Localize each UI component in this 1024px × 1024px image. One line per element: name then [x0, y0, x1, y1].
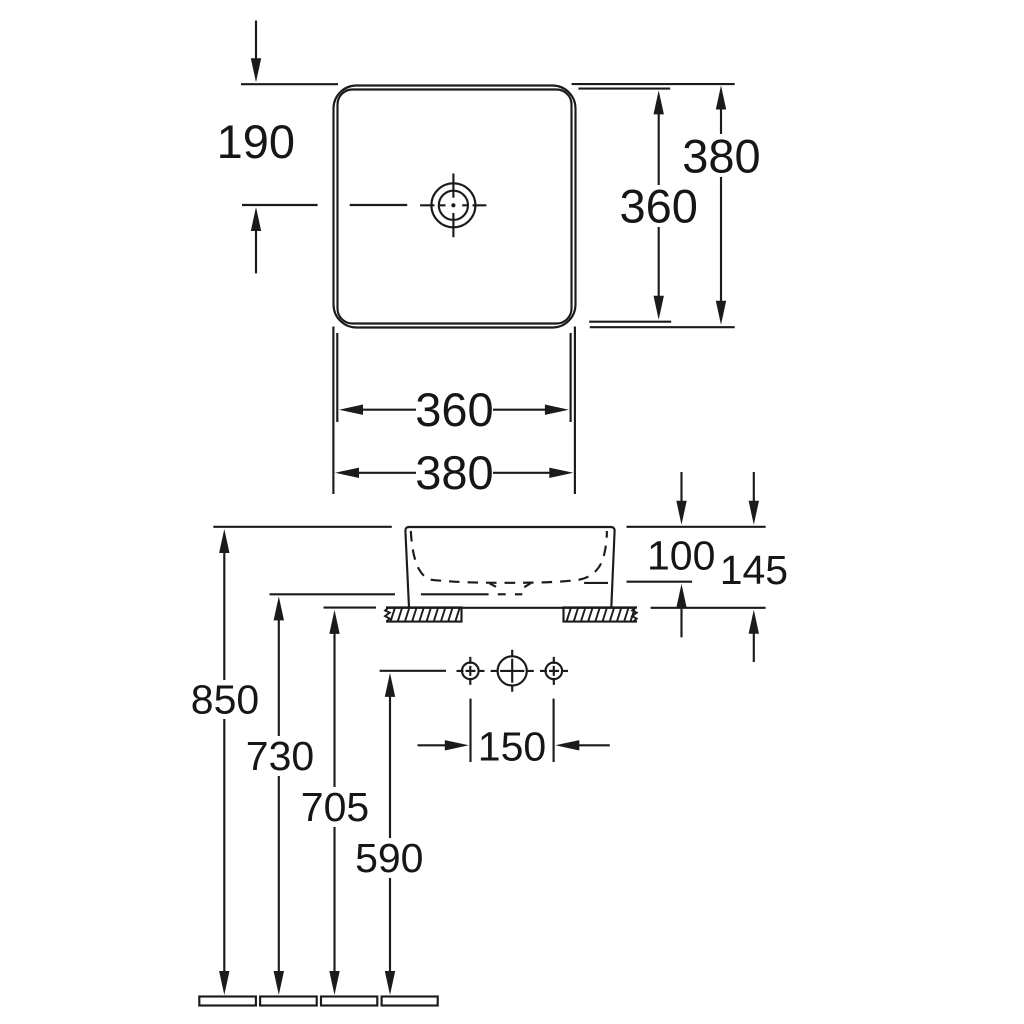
centerline segment left of drain	[350, 204, 408, 206]
dim 100: lower arrowhead (up)	[676, 584, 686, 608]
drain crosshair vertical centerline	[452, 174, 454, 238]
dim 190: top tick line	[241, 83, 338, 85]
dim 190: lower arrowhead (up)	[251, 207, 261, 231]
bowl drain recess right slant dash	[524, 583, 531, 587]
faucet hole right crosshair vertical	[553, 657, 555, 685]
faucet hole right circle	[546, 663, 563, 680]
dim 730: lower arrowhead (down)	[274, 971, 284, 995]
break squiggle at left end of counter	[385, 608, 390, 622]
faucet hole left circle	[462, 663, 479, 680]
dim 360 right: upper arrowhead (up)	[654, 90, 664, 114]
dim 360 right: top tick	[578, 88, 670, 90]
counter hatched block right	[564, 608, 638, 622]
dim 730: upper arrowhead (up)	[274, 596, 284, 620]
dim 360 right: upper shaft	[658, 113, 660, 185]
dim 380 bottom: right extension line	[574, 327, 576, 495]
100-depth level tick	[627, 581, 693, 583]
dim 360 right: lower shaft	[658, 227, 660, 297]
dim 100: upper arrowhead (down)	[676, 501, 686, 525]
drain inner circle	[439, 191, 468, 220]
interior bowl hidden line (dashed)	[411, 531, 607, 583]
basin outer outline (top view)	[334, 86, 576, 328]
dim 360 bottom: right arrowhead (right)	[545, 405, 569, 415]
interior bottom dash 2	[515, 593, 522, 595]
svg-text:150: 150	[478, 724, 546, 770]
dim 850: upper arrowhead (up)	[219, 529, 229, 553]
break squiggle at right end of counter	[631, 608, 637, 622]
svg-text:380: 380	[682, 130, 760, 183]
interior bottom solid line	[421, 593, 489, 595]
faucet hole left crosshair vertical	[469, 657, 471, 685]
drain outer circle	[431, 183, 475, 227]
drain center dot	[451, 203, 455, 207]
dim 190: lower arrow shaft	[255, 231, 257, 273]
svg-text:360: 360	[415, 383, 493, 436]
basin inner outline (top view)	[338, 90, 572, 324]
dim 590: lower shaft	[389, 878, 391, 972]
dim 190: upper arrowhead (down)	[251, 58, 261, 82]
dim 730: level tick	[270, 593, 396, 595]
faucet hole center crosshair vertical	[511, 650, 513, 692]
right rim level tick	[627, 526, 766, 528]
dim 705: upper shaft	[333, 633, 335, 787]
svg-text:730: 730	[246, 733, 314, 779]
dim 705: upper arrowhead (up)	[329, 610, 339, 634]
dim 705: lower arrowhead (down)	[329, 971, 339, 995]
dim 705: level tick (counter)	[324, 607, 377, 609]
dim 190: upper arrow shaft	[255, 21, 257, 61]
faucet hole center circle	[498, 656, 527, 685]
dim 150: left extension line	[469, 699, 471, 762]
svg-text:850: 850	[191, 677, 259, 723]
dim 380 bottom: left arrowhead (left)	[335, 468, 359, 478]
dim 145: lower arrowhead (up)	[749, 610, 759, 634]
dim 730: lower shaft	[278, 776, 280, 972]
dim 380 bottom: right arrowhead (right)	[549, 468, 573, 478]
dim 380 right: top tick	[572, 83, 735, 85]
counter top line	[388, 607, 633, 609]
dim 100: lower shaft	[680, 607, 682, 637]
counter hatched block left	[385, 608, 461, 622]
dim 150: left arrowhead (right)	[445, 740, 469, 750]
dim 850: lower shaft	[223, 719, 225, 972]
floor slab 2	[260, 997, 317, 1006]
basin side profile (rim and walls)	[405, 527, 614, 608]
svg-text:360: 360	[619, 180, 697, 233]
dim 380 right: upper shaft	[720, 109, 722, 135]
dim 360 bottom: left shaft	[362, 409, 416, 411]
interior shelf edge right (solid)	[584, 582, 608, 584]
svg-text:380: 380	[415, 446, 493, 499]
dim 380 bottom: right shaft	[493, 472, 551, 474]
dim 150: right shaft	[578, 744, 610, 746]
svg-text:100: 100	[647, 533, 715, 579]
dim 360 right: bottom tick	[589, 321, 671, 323]
dim 150: right extension line	[553, 699, 555, 762]
dim 380 bottom: left extension line	[332, 327, 334, 495]
floor slab 4	[382, 997, 438, 1006]
dim 590: upper shaft	[389, 696, 391, 838]
dim 590: upper arrowhead (up)	[385, 673, 395, 697]
faucet hole left crosshair horizontal	[457, 670, 485, 672]
svg-text:705: 705	[301, 784, 369, 830]
dim 705: lower shaft	[333, 827, 335, 972]
floor slab 3	[321, 997, 377, 1006]
right counter level tick	[651, 607, 766, 609]
dim 850: upper shaft	[223, 552, 225, 680]
dim 850: level tick (rim)	[213, 526, 391, 528]
dim 100: upper arrow shaft (from above)	[680, 472, 682, 502]
dim 150: left shaft	[418, 744, 447, 746]
svg-text:145: 145	[720, 547, 788, 593]
dim 360 bottom: right shaft	[493, 409, 546, 411]
dim 590: lower arrowhead (down)	[385, 971, 395, 995]
floor slab 1	[199, 997, 256, 1006]
faucet hole right crosshair horizontal	[540, 670, 568, 672]
dim 380 right: lower shaft	[720, 177, 722, 303]
dim 360 right: lower arrowhead (down)	[654, 296, 664, 320]
dim 850: lower arrowhead (down)	[219, 971, 229, 995]
dim 380 bottom: left shaft	[358, 472, 416, 474]
faucet hole center crosshair horizontal	[491, 670, 534, 672]
dim 360 bottom: left extension line	[336, 333, 338, 422]
bowl drain recess left slant dash	[490, 583, 497, 587]
dim 380 right: upper arrowhead (up)	[716, 86, 726, 110]
svg-text:590: 590	[355, 835, 423, 881]
dim 145: upper arrowhead (down)	[749, 501, 759, 525]
drain crosshair horizontal centerline	[420, 204, 486, 206]
svg-text:190: 190	[217, 115, 295, 168]
dim 150: right arrowhead (left)	[555, 740, 579, 750]
dim 380 right: bottom tick	[590, 326, 735, 328]
dim 360 bottom: left arrowhead (left)	[339, 405, 363, 415]
dim 360 bottom: right extension line	[570, 333, 572, 422]
dim 145: upper arrow shaft (from above)	[753, 472, 755, 502]
interior bottom dash 1	[498, 593, 506, 595]
dim 190: lower tick line	[242, 204, 318, 206]
dim 730: upper shaft	[278, 619, 280, 736]
dim 145: lower shaft	[753, 633, 755, 662]
dim 380 right: lower arrowhead (down)	[716, 301, 726, 325]
dim 590: level tick (hole centerline)	[380, 670, 446, 672]
